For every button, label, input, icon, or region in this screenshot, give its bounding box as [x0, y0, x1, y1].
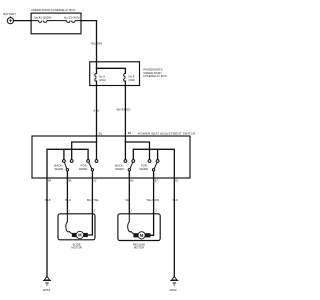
svg-text:WARD: WARD — [139, 167, 147, 171]
svg-text:No.23 (40A): No.23 (40A) — [64, 16, 80, 20]
svg-text:YEL/GRN: YEL/GRN — [146, 198, 159, 202]
svg-text:MOTOR: MOTOR — [134, 246, 144, 250]
svg-text:B2: B2 — [175, 179, 179, 182]
svg-text:A2: A2 — [93, 179, 97, 182]
svg-text:YEL: YEL — [125, 198, 131, 202]
svg-text:B1: B1 — [99, 132, 103, 136]
svg-text:FUSE/RELAY BOX: FUSE/RELAY BOX — [143, 74, 167, 78]
svg-text:1: 1 — [69, 210, 71, 213]
svg-text:BATTERY: BATTERY — [3, 12, 16, 16]
svg-text:WARD: WARD — [54, 167, 62, 171]
svg-text:BLU/YEL: BLU/YEL — [87, 198, 99, 202]
svg-text:(20A): (20A) — [128, 78, 135, 82]
svg-text:YEL/GRN: YEL/GRN — [90, 42, 102, 46]
svg-text:BLK: BLK — [45, 198, 51, 202]
svg-text:WARD: WARD — [79, 167, 87, 171]
svg-text:M: M — [78, 233, 82, 238]
svg-text:1: 1 — [155, 210, 157, 213]
svg-text:G551: G551 — [43, 288, 51, 292]
svg-text:B7: B7 — [155, 179, 159, 182]
svg-text:B5: B5 — [130, 179, 134, 182]
svg-text:B4: B4 — [48, 179, 52, 182]
svg-text:2: 2 — [130, 210, 132, 213]
svg-text:MOTOR: MOTOR — [71, 246, 81, 250]
svg-text:WARD: WARD — [115, 167, 123, 171]
svg-text:B6: B6 — [68, 179, 72, 182]
svg-text:WHT/RED: WHT/RED — [116, 107, 131, 111]
svg-text:M: M — [140, 233, 144, 238]
svg-text:POWER SEAT ADJUSTMENT SWITCH: POWER SEAT ADJUSTMENT SWITCH — [138, 131, 195, 135]
svg-text:2: 2 — [94, 210, 96, 213]
svg-text:A10: A10 — [93, 108, 99, 112]
svg-text:UNDER-HOOD FUSE/RELAY BOX: UNDER-HOOD FUSE/RELAY BOX — [31, 8, 76, 12]
svg-text:G552: G552 — [169, 288, 177, 292]
svg-text:B3: B3 — [128, 131, 132, 135]
svg-text:BLK: BLK — [173, 198, 179, 202]
svg-text:BLU: BLU — [65, 198, 71, 202]
svg-text:No.41 (100A): No.41 (100A) — [34, 16, 51, 20]
svg-text:(20A): (20A) — [99, 78, 106, 82]
